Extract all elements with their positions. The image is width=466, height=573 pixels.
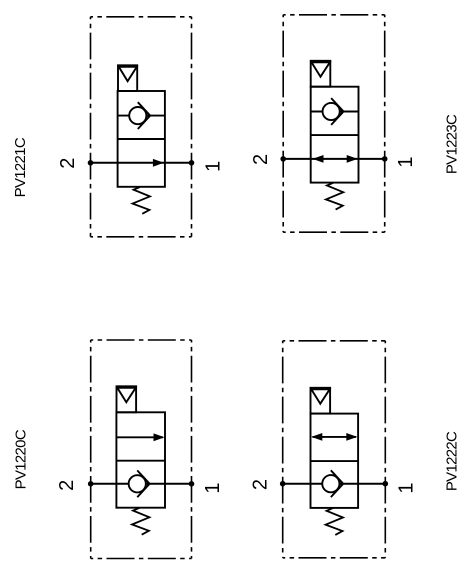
svg-text:PV1221C: PV1221C — [12, 137, 29, 197]
enclosure border left — [282, 341, 284, 558]
double flow arrow in upper square — [313, 436, 357, 438]
flow arrow right head on port line — [347, 155, 358, 163]
node port 1 dot — [383, 481, 389, 487]
enclosure border top — [91, 339, 192, 341]
flow arrow line in upper square — [116, 436, 163, 438]
pilot actuator — [311, 61, 331, 87]
check valve — [323, 103, 340, 120]
enclosure border top — [91, 16, 192, 18]
valve body PV1222C — [311, 414, 359, 508]
svg-text:PV1222C: PV1222C — [444, 431, 461, 491]
enclosure border right — [384, 341, 386, 558]
enclosure border top — [283, 340, 386, 342]
check valve on port line — [322, 475, 339, 492]
node port 1 dot — [382, 156, 388, 162]
valve body divider — [118, 138, 165, 140]
svg-text:1: 1 — [202, 482, 224, 493]
valve body PV1220C — [116, 412, 165, 507]
enclosure border bottom — [283, 557, 386, 559]
enclosure border bottom — [91, 558, 192, 560]
node port 2 dot — [88, 160, 94, 166]
node port 1 dot — [189, 160, 195, 166]
pilot actuator — [311, 388, 331, 414]
svg-text:PV1223C: PV1223C — [444, 114, 461, 174]
enclosure border bottom — [91, 236, 192, 238]
valve body PV1221C — [118, 91, 165, 187]
node port 2 dot — [88, 481, 94, 487]
spring — [133, 187, 150, 214]
flow arrow right on port line — [153, 159, 164, 167]
node port 1 dot — [189, 481, 195, 487]
wire port line 2-1 (PV1222C) — [283, 483, 386, 485]
spring — [326, 183, 343, 210]
enclosure border left — [282, 15, 284, 232]
svg-text:2: 2 — [250, 154, 272, 165]
pilot actuator — [117, 386, 137, 412]
enclosure border right — [191, 340, 193, 559]
flow arrow left head on port line — [313, 155, 324, 163]
svg-text:2: 2 — [250, 479, 272, 490]
svg-text:1: 1 — [395, 482, 417, 493]
flow line through check position — [118, 115, 165, 117]
valve body divider — [311, 460, 359, 462]
wire port line 2-1 (PV1220C) — [91, 483, 192, 485]
wire port line 2-1 (PV1221C) — [91, 162, 192, 164]
check valve — [129, 107, 146, 124]
pilot actuator — [118, 65, 137, 91]
svg-text:2: 2 — [57, 158, 79, 169]
node port 2 dot — [280, 156, 286, 162]
svg-text:1: 1 — [395, 156, 417, 167]
valve body divider — [116, 460, 165, 462]
spring — [326, 508, 343, 535]
node port 2 dot — [280, 481, 286, 487]
flow line through check position — [311, 111, 359, 113]
enclosure border right — [191, 17, 193, 237]
check valve on port line — [129, 475, 146, 492]
valve body PV1223C — [311, 87, 359, 183]
enclosure border right — [384, 15, 386, 232]
enclosure border top — [283, 14, 385, 16]
svg-text:1: 1 — [202, 161, 224, 172]
enclosure border bottom — [283, 231, 385, 233]
wire port line 2-1 (PV1223C) — [283, 158, 385, 160]
enclosure border left — [90, 340, 92, 559]
enclosure border left — [90, 17, 92, 237]
svg-text:PV1220C: PV1220C — [12, 429, 29, 489]
svg-text:2: 2 — [56, 480, 78, 491]
valve body divider — [311, 134, 359, 136]
spring — [132, 508, 149, 535]
